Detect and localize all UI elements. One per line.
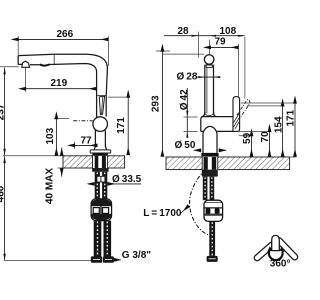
swivel rotation arc arrow [269,251,283,260]
neck bullet [203,126,217,152]
coupling block [91,199,112,221]
svg-text:Ø 28: Ø 28 [177,71,198,82]
countertop right view right part [218,157,290,170]
left vertical dim upper (clipped 237) [4,68,6,156]
dim 77 [74,142,76,149]
hose end nut right view [207,256,218,262]
hose below block right view [209,221,215,256]
lever (side view) [99,96,104,114]
base black plate right view [201,153,218,157]
dim diameter 33.5 [88,183,94,185]
base black plate [92,153,107,156]
svg-text:219: 219 [51,78,68,89]
pull-out hose dashed loop [190,170,213,237]
svg-text:266: 266 [57,29,74,40]
svg-text:79: 79 [215,36,227,47]
lever raised position dash-dot [237,99,250,118]
svg-text:28: 28 [178,26,190,37]
column bottom joint cup [205,114,214,116]
hoses below block [94,221,102,257]
threaded shank right view [203,177,208,201]
swivel icon left arm [253,241,276,262]
top dim line 28 / 108 [164,35,245,37]
locking nut right view [202,170,218,177]
svg-text:70: 70 [260,131,271,143]
dim 171 left view [108,96,129,98]
hose end nuts [91,256,102,262]
mixer body [201,117,233,132]
svg-text:103: 103 [45,127,56,144]
spray diverter bump [22,61,30,67]
base upper plate [90,150,111,153]
swivel icon spout capsule [272,235,280,250]
left vertical dim lower (clipped 460) [4,156,6,260]
svg-text:Ø 33.5: Ø 33.5 [112,174,142,185]
svg-text:171: 171 [286,109,297,126]
coupling block right view [204,200,223,221]
svg-text:360°: 360° [270,258,291,269]
lever post (rest position) [233,97,240,132]
locking nut below deck [92,168,109,172]
dim 171 right view [241,102,296,104]
svg-text:L = 1700: L = 1700 [143,208,182,219]
svg-text:171: 171 [116,117,127,134]
dim 79 [211,46,239,48]
column below ball [94,130,107,150]
dim 266 [18,36,108,66]
shank bars right view [204,157,208,170]
countertop hatched left part [63,156,93,168]
threaded tube below nut [95,172,100,199]
svg-text:40 MAX: 40 MAX [44,168,55,204]
svg-text:G 3/8": G 3/8" [122,250,151,261]
deck top extension right [290,156,297,158]
svg-text:Ø 42: Ø 42 [179,89,190,110]
svg-text:Ø 50: Ø 50 [175,140,196,151]
svg-text:59: 59 [242,132,253,144]
dim 103 [54,118,69,120]
svg-text:77: 77 [81,136,93,147]
cartridge cap line [97,95,107,97]
svg-text:237: 237 [0,103,7,120]
shank bars through deck [95,156,99,168]
aerator dark arc [40,64,50,65]
svg-text:460: 460 [0,185,7,202]
svg-text:293: 293 [151,95,162,112]
column top knob [204,55,214,65]
spout head left edge and underside [18,56,96,118]
dim 40 MAX [57,167,63,169]
swivel icon right arm [275,236,299,261]
dim 219 [25,68,27,92]
spout head divider [53,54,55,64]
faucet spout arm (side view) [18,54,107,116]
handle ball [93,117,108,132]
left extension lines [0,67,91,261]
dim 70 [239,130,270,132]
dim 154 [247,105,284,107]
handle dash-dot line [73,120,93,122]
column-body fillets [202,112,217,117]
dim 59 [239,135,252,137]
dim 293 [156,51,205,54]
countertop right view left part [166,157,202,170]
column tube [205,65,214,114]
countertop hatched right part [108,156,125,168]
tube white window [97,176,105,182]
svg-text:108: 108 [220,26,237,37]
svg-text:154: 154 [274,116,285,133]
